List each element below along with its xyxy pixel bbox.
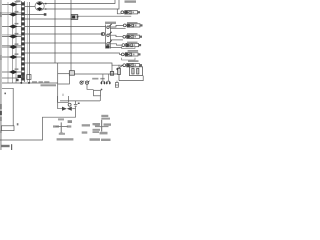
label B1 bottom [41,84,57,86]
label lamp5 [128,50,139,52]
wire bus F [25,42,106,44]
resistor box RN1 [130,67,143,76]
wire row1 [2,4,21,6]
wire K1 to L2 [110,25,123,27]
lamp L2 [123,24,142,27]
meter M2 [80,81,84,84]
buzzer U1 [25,2,47,11]
label TB-1(M) [125,0,137,2]
wire K2 to L3 [110,35,123,37]
meter M3 [85,81,89,84]
contact at lamp L6 [117,65,123,70]
terminal strip TB1 [21,1,29,83]
node dot lower [4,93,6,95]
lamp L6 [123,64,142,67]
wire meters to shunt [87,84,94,89]
contact K1 [107,24,112,29]
wire bus E [25,33,103,35]
wire R1 to RN1 [119,76,143,81]
switch SW3 [9,23,18,29]
wire row4 [2,36,21,38]
bus vertical V1 [12,2,14,83]
meter M1 [101,32,104,35]
lamp L4 [122,43,141,46]
shunt box SH1 [94,90,101,96]
wire lower bus K [2,77,18,79]
label above bus L [32,81,49,83]
fuse F1 [71,15,78,20]
diode D1 below R1 [115,81,118,88]
wire row3 [2,26,21,28]
bus vertical V0 [7,2,9,83]
note text block bottom right [95,115,111,141]
battery BT1 [74,101,80,117]
capacitor C2 [101,81,105,84]
wire ground return [0,117,76,140]
switch SW1 [9,1,18,7]
note text block bottom mid [82,123,100,141]
scan margin strip [0,0,2,150]
label lamp3 [127,33,138,35]
terminal box TB4 [1,126,14,131]
wire bus D [25,26,106,28]
wire under lamp L4 [110,47,122,49]
wire under lamp L2 [110,27,125,29]
valve V1 [58,84,76,111]
switch SW5 [9,43,18,49]
relay coil RY1 [106,45,110,48]
box B2 open bottom [58,96,69,102]
node J2 [102,33,104,35]
lamp L3 [123,35,142,38]
tick TB4 [17,123,19,125]
capacitor C1 [110,65,113,75]
wire lower bus L [2,82,58,84]
selector switch S1 frame [106,25,111,49]
wire row2 [2,14,44,16]
label lamp4 [127,42,138,44]
wire bus G [25,53,121,54]
node dot mid [101,89,103,91]
switch SW6 [9,53,18,59]
label top-left 4x [16,0,21,2]
wire under lamp L3 [110,39,123,41]
contact K3 [107,40,112,45]
bracket under lamp L4 [122,46,135,48]
wire bus A [43,0,116,4]
wire SH1 down [99,96,101,101]
title block text [1,145,10,147]
capacitor C3 [106,81,110,84]
feeder vertical x55 [54,0,56,63]
title block tick [11,144,12,150]
box B1 [58,63,70,84]
wire under lamp L1 [77,15,131,17]
wire row7 [2,71,21,73]
wire bus H [25,63,123,65]
switch SW7 [9,68,18,74]
wire bus C [25,18,71,20]
wire row5 [2,46,21,48]
wire row6 [2,56,21,58]
label lamp1 [105,22,116,24]
label caps right [100,78,104,80]
switch SW4 [9,33,18,39]
wire K3 to L4 [110,44,122,45]
bus vertical V2 [15,2,17,83]
note text block bottom center [53,118,73,140]
label lamp2 [127,22,138,24]
wire bus B [43,0,120,9]
contact K2 [107,32,112,37]
resistor R1 [118,65,121,81]
bracket under lamp L5 [122,58,135,60]
lamp L1 [121,11,140,14]
feeder vertical x71 [70,0,72,71]
wire bus J [60,100,100,102]
switch SW2 [9,11,46,17]
label 5A [68,120,72,123]
circuit breaker CB1 [69,71,117,82]
junction cluster JB1 [16,75,31,84]
wire to title block [2,88,13,126]
lamp L5 [121,53,140,56]
label lamp6 [128,60,139,62]
label caps left [92,78,98,80]
